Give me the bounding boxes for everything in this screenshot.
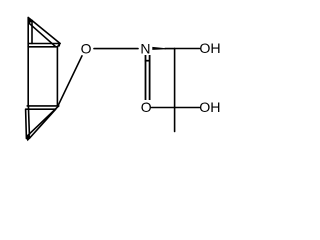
cage bottom upper hypotenuse: [27, 106, 59, 136]
cage top corner flag fill: [58, 43, 61, 47]
bond C bottom to OH: [175, 107, 200, 109]
cage top apex flag edge 2: [29, 21, 32, 23]
wedge bond N to C top: [152, 47, 166, 50]
bond C top to C bottom: [174, 49, 176, 108]
H crossbar: [145, 60, 151, 62]
svg-text:OH: OH: [199, 100, 220, 116]
cage bottom lower horizontal: [26, 108, 56, 110]
bond O2 to C bottom: [152, 107, 175, 109]
cage top upper hypotenuse: [32, 21, 60, 44]
svg-text:OH: OH: [199, 41, 220, 57]
double bond N=O line 1 (continues H left leg): [145, 55, 147, 100]
cage right edge: [56, 47, 58, 106]
cage top apex flag fill: [28, 18, 32, 23]
bond C top to OH: [175, 48, 200, 50]
cage bottom inner vertical: [28, 106, 29, 135]
bond methyl: [174, 108, 176, 132]
cage bottom apex fill: [26, 135, 31, 141]
cage top edge of rectangle: [28, 46, 57, 48]
double bond N=O line 2 (continues H right leg): [149, 55, 151, 100]
cage top lower hypotenuse: [29, 23, 56, 47]
cage top corner connector: [58, 43, 61, 46]
cage top upper horizontal: [28, 43, 60, 45]
cage top back vertical: [31, 21, 33, 44]
bond cage to O: [58, 56, 82, 106]
cage top apex flag edge 1: [28, 18, 32, 21]
svg-text:N: N: [140, 41, 150, 57]
cage left edge (front): [27, 18, 29, 106]
svg-text:O: O: [141, 99, 152, 115]
cage bottom apex connector: [27, 137, 30, 139]
cage bottom outer vertical: [25, 109, 28, 138]
cage bottom lower hypotenuse: [30, 109, 56, 138]
bond wedge tail line: [165, 48, 175, 50]
svg-text:O: O: [81, 41, 92, 57]
bond O to N: [94, 48, 138, 50]
cage bottom edge of rectangle: [27, 105, 59, 107]
